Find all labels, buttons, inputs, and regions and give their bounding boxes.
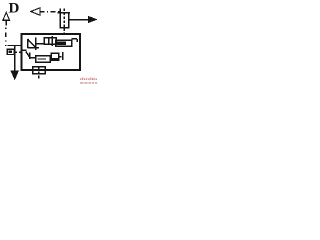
bottom dashed stem: [38, 67, 40, 79]
valve box B1: [44, 38, 56, 45]
element box B3: [36, 56, 51, 63]
wire dashed to box: [15, 51, 22, 53]
wire: [36, 43, 45, 45]
check valve V1 triangle: [28, 39, 40, 48]
stop bar: [62, 52, 64, 60]
wire stub right: [72, 39, 78, 42]
bottom port box: [33, 67, 46, 74]
wire: [59, 56, 62, 58]
pilot valve triangle: [22, 50, 30, 59]
drain line down: [14, 46, 16, 72]
regulator main box: [22, 34, 81, 70]
piston rod dashed line: [63, 9, 65, 35]
arrow up (open head) at left boundary: [3, 13, 10, 21]
cylinder (top transducer box): [60, 13, 69, 28]
wire dash-dot horizontal top: [40, 11, 61, 13]
wire: [30, 57, 36, 59]
wire output line: [69, 19, 90, 21]
element box B4: [51, 53, 59, 60]
arrow right (solid output): [88, 16, 98, 23]
valve seat bar: [35, 38, 37, 51]
wire dash-dot vertical boundary line: [5, 28, 7, 47]
sensor box left: [7, 49, 14, 54]
svg-text:D: D: [9, 1, 20, 17]
valve box B2: [56, 40, 72, 46]
input wire left: [8, 45, 22, 47]
arrow down (solid drain): [10, 70, 19, 80]
arrow left (open head) top feedback: [31, 8, 40, 15]
watermark red text: [80, 77, 97, 83]
